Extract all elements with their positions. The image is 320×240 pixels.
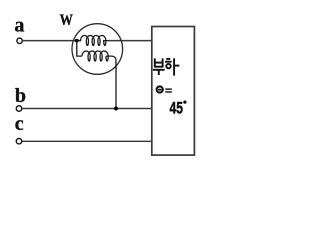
wire c	[22, 140, 152, 142]
theta symbol	[157, 86, 163, 92]
degree mark	[183, 101, 186, 104]
svg-text:c: c	[15, 113, 24, 135]
terminal c	[16, 139, 21, 144]
equals sign	[165, 88, 172, 89]
junction dot on line b	[114, 107, 118, 111]
wattmeter circle	[72, 24, 123, 75]
terminal a	[17, 38, 22, 43]
svg-text:W: W	[60, 12, 73, 29]
wire b	[22, 108, 152, 110]
svg-text:b: b	[15, 85, 26, 107]
potential coil right lead down to line b	[106, 56, 116, 108]
wire a: terminal to wattmeter junction	[22, 40, 81, 42]
current coil (top)	[78, 35, 109, 45]
load label 부하 (Korean, drawn as strokes)	[153, 58, 180, 75]
potential coil left lead	[77, 41, 82, 57]
junction dot (current/potential coil tap)	[75, 39, 79, 43]
svg-text:a: a	[14, 14, 24, 36]
wire a: wattmeter to load box	[108, 40, 152, 42]
svg-text:45: 45	[170, 99, 183, 118]
potential coil (bottom)	[82, 51, 108, 61]
load box	[152, 27, 195, 156]
terminal b	[16, 106, 21, 111]
